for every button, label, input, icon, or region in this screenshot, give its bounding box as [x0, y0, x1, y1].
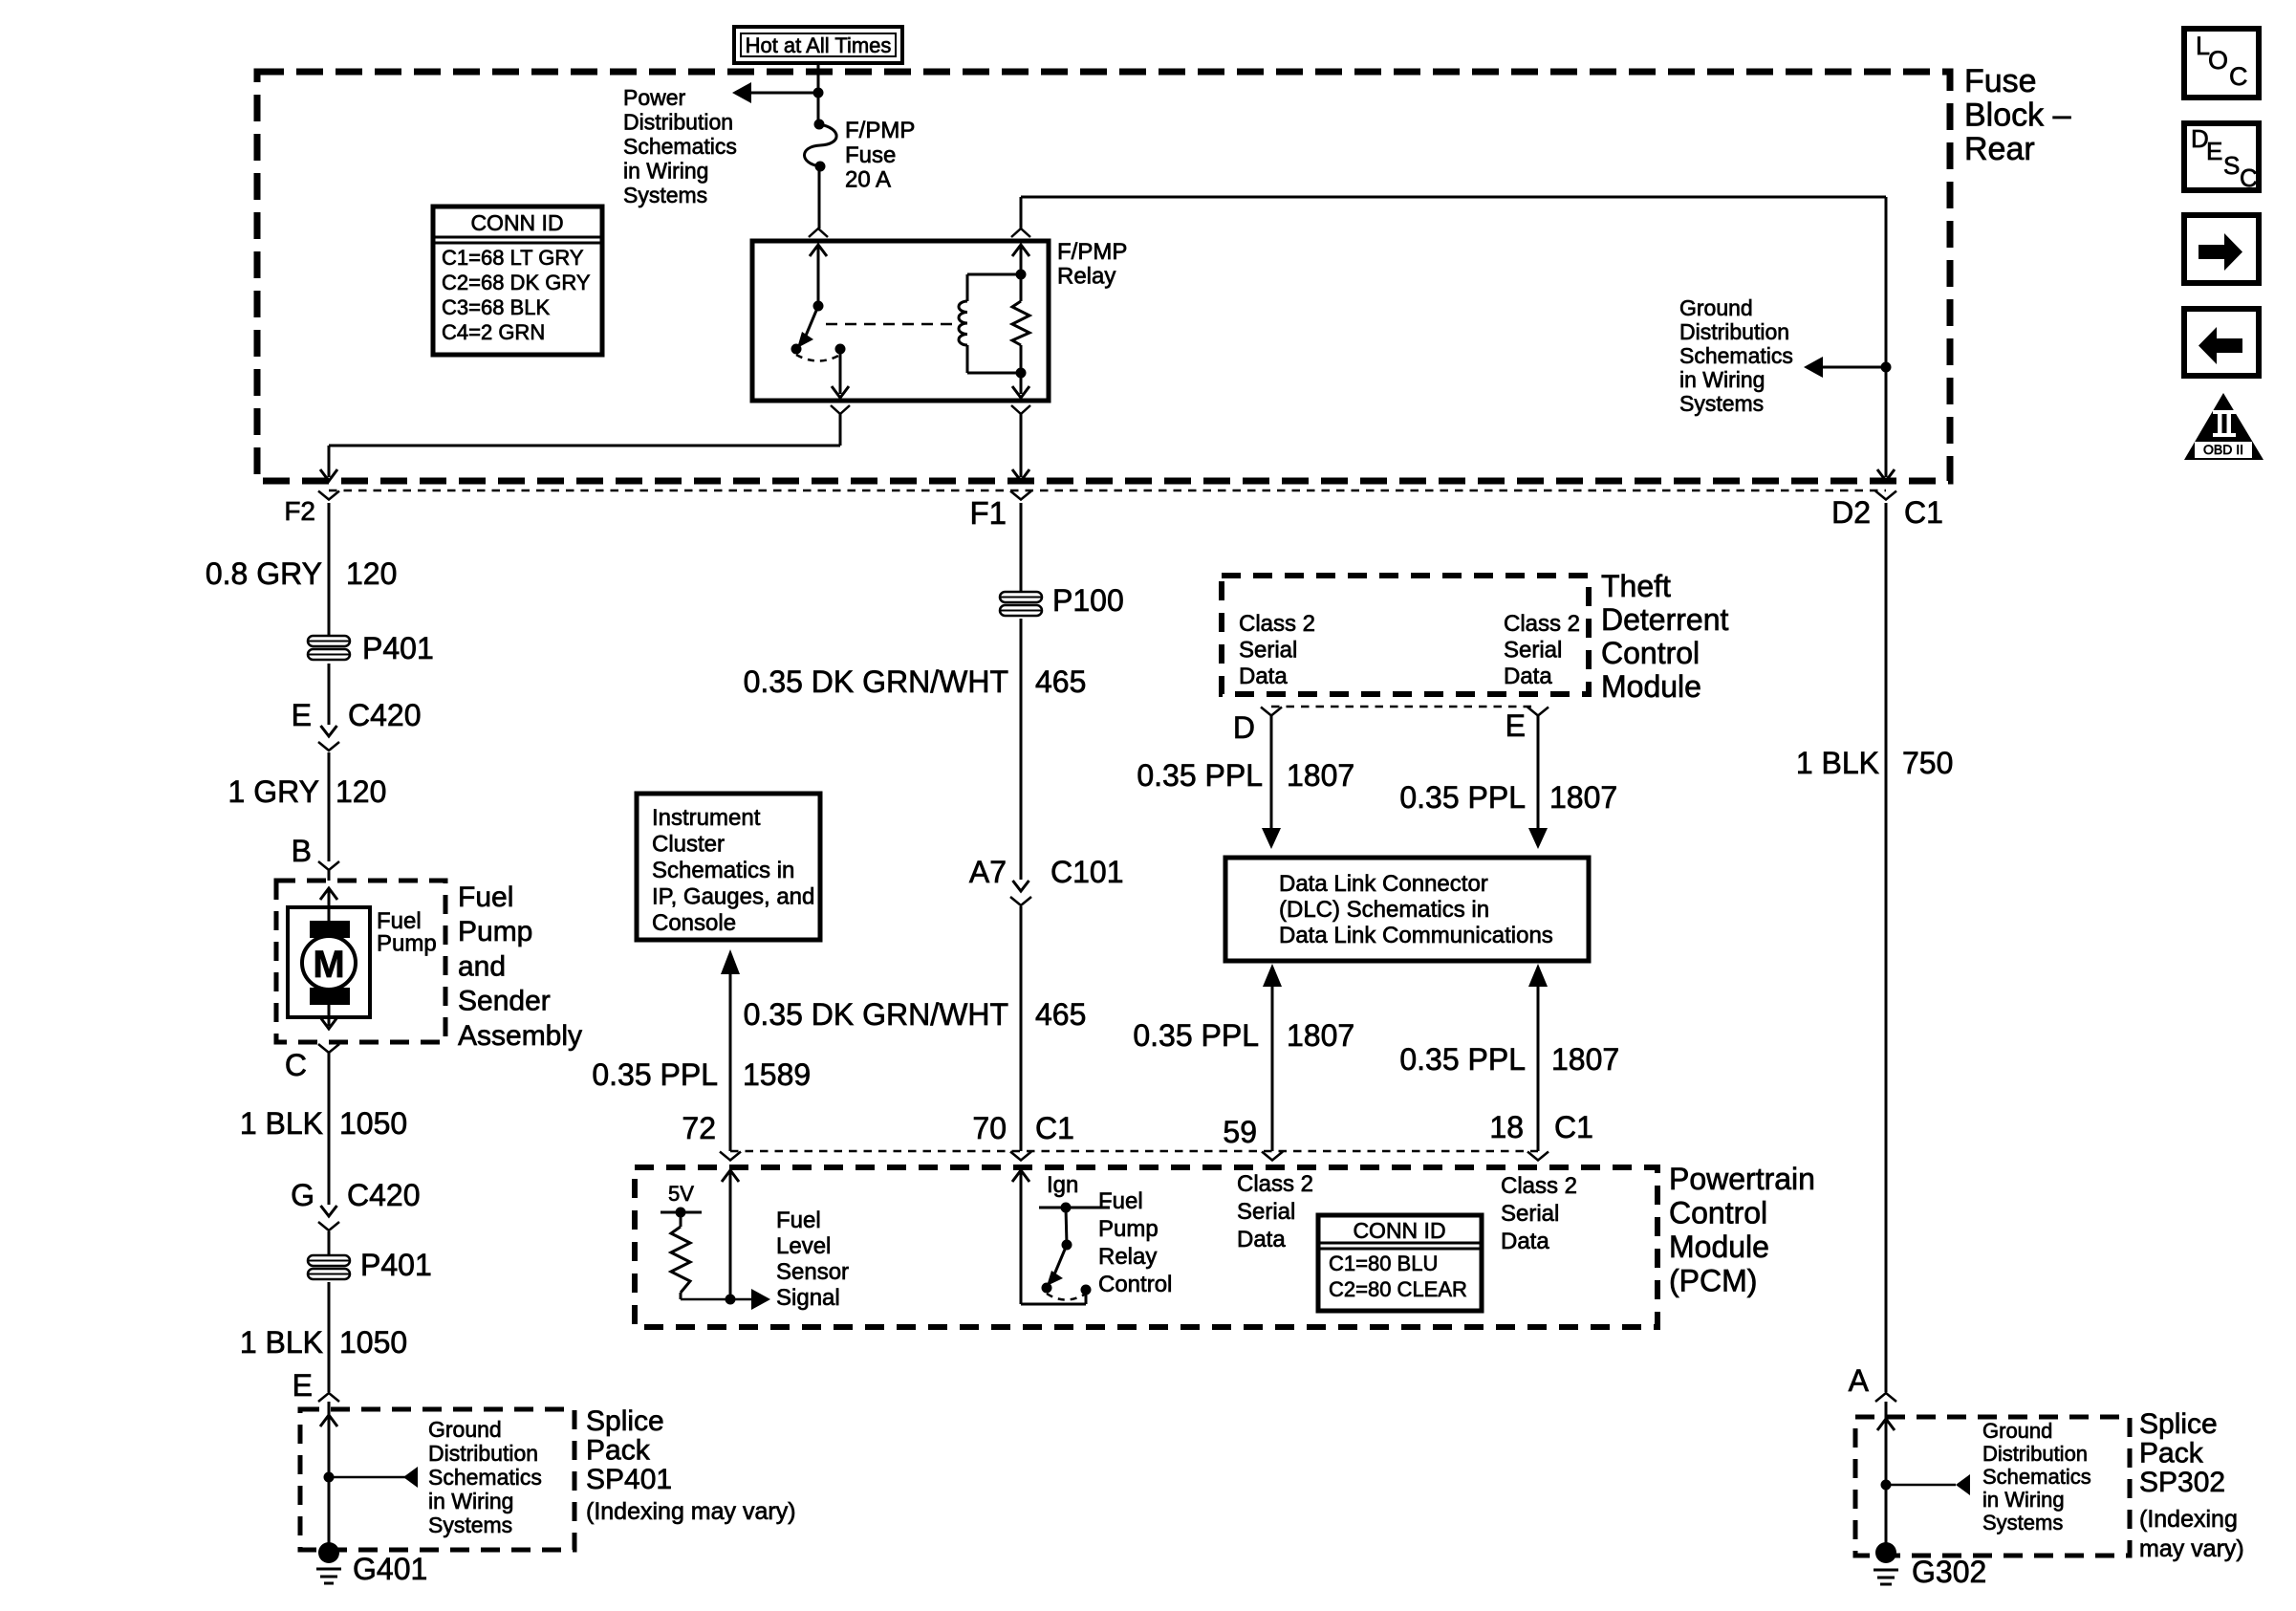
svg-text:Hot at All Times: Hot at All Times	[746, 33, 892, 57]
svg-text:Cluster: Cluster	[652, 832, 725, 858]
svg-text:Relay: Relay	[1098, 1244, 1157, 1270]
svg-text:E: E	[2206, 137, 2222, 165]
svg-text:1807: 1807	[1287, 1018, 1354, 1053]
svg-text:1589: 1589	[743, 1057, 811, 1092]
svg-text:(PCM): (PCM)	[1669, 1264, 1757, 1298]
svg-text:Signal: Signal	[776, 1285, 840, 1311]
svg-text:Sensor: Sensor	[776, 1259, 849, 1285]
svg-text:20 A: 20 A	[845, 167, 891, 193]
svg-text:G: G	[291, 1178, 314, 1212]
svg-text:Deterrent: Deterrent	[1601, 602, 1729, 637]
svg-text:Fuel: Fuel	[1098, 1188, 1143, 1214]
svg-text:0.35 PPL: 0.35 PPL	[1133, 1018, 1259, 1053]
svg-text:Pack: Pack	[2139, 1438, 2204, 1469]
svg-text:0.8 GRY: 0.8 GRY	[206, 556, 322, 591]
svg-text:Data: Data	[1504, 664, 1552, 689]
svg-text:Schematics: Schematics	[623, 134, 737, 159]
svg-text:Rear: Rear	[1964, 131, 2035, 167]
svg-text:0.35 DK GRN/WHT: 0.35 DK GRN/WHT	[744, 997, 1008, 1032]
svg-text:Systems: Systems	[428, 1513, 512, 1537]
svg-text:1807: 1807	[1549, 780, 1617, 815]
svg-text:C1: C1	[1035, 1111, 1074, 1145]
svg-text:in Wiring: in Wiring	[1679, 367, 1765, 392]
svg-text:Systems: Systems	[1679, 391, 1764, 416]
svg-text:in Wiring: in Wiring	[428, 1489, 513, 1513]
svg-text:Block –: Block –	[1964, 98, 2071, 134]
svg-text:0.35 PPL: 0.35 PPL	[1399, 780, 1526, 815]
svg-text:Data: Data	[1501, 1229, 1549, 1254]
svg-text:0.35 PPL: 0.35 PPL	[1137, 758, 1263, 793]
svg-text:Data Link Connector: Data Link Connector	[1279, 871, 1488, 897]
svg-text:C101: C101	[1051, 855, 1124, 889]
svg-text:Control: Control	[1601, 636, 1700, 670]
svg-text:Data Link Communications: Data Link Communications	[1279, 923, 1553, 948]
svg-text:Ign: Ign	[1047, 1172, 1078, 1198]
svg-text:Systems: Systems	[1982, 1511, 2063, 1535]
svg-text:Relay: Relay	[1057, 264, 1116, 290]
svg-text:B: B	[292, 834, 312, 868]
svg-text:G401: G401	[353, 1552, 427, 1586]
svg-text:E: E	[1505, 708, 1526, 743]
svg-text:C420: C420	[347, 1178, 421, 1212]
svg-text:C2=68 DK GRY: C2=68 DK GRY	[442, 271, 591, 294]
svg-text:Fuse: Fuse	[845, 142, 896, 168]
svg-text:SP401: SP401	[586, 1464, 672, 1495]
svg-text:Fuel: Fuel	[776, 1208, 821, 1233]
svg-text:F/PMP: F/PMP	[1057, 239, 1127, 265]
svg-text:F/PMP: F/PMP	[845, 118, 915, 143]
svg-text:1050: 1050	[339, 1325, 407, 1360]
svg-text:Class 2: Class 2	[1504, 611, 1580, 637]
svg-text:E: E	[292, 1368, 313, 1403]
svg-text:1 BLK: 1 BLK	[240, 1325, 323, 1360]
svg-text:OBD II: OBD II	[2203, 442, 2243, 457]
svg-text:Pump: Pump	[1098, 1216, 1159, 1242]
svg-text:Ground: Ground	[1679, 295, 1753, 320]
svg-text:Serial: Serial	[1239, 638, 1297, 664]
svg-text:(Indexing: (Indexing	[2139, 1506, 2238, 1533]
svg-text:Class 2: Class 2	[1239, 611, 1315, 637]
svg-text:Level: Level	[776, 1233, 831, 1259]
svg-text:C2=80 CLEAR: C2=80 CLEAR	[1329, 1277, 1467, 1301]
svg-text:F1: F1	[969, 495, 1007, 531]
svg-text:G302: G302	[1912, 1555, 1986, 1589]
svg-text:Pump: Pump	[377, 931, 437, 957]
svg-text:C: C	[2229, 62, 2248, 91]
svg-text:Console: Console	[652, 910, 736, 936]
svg-text:Powertrain: Powertrain	[1669, 1162, 1815, 1196]
svg-text:C1=80 BLU: C1=80 BLU	[1329, 1252, 1438, 1275]
svg-text:Data: Data	[1237, 1227, 1286, 1252]
svg-text:M: M	[313, 944, 344, 986]
svg-text:C: C	[2240, 163, 2258, 192]
svg-text:465: 465	[1035, 664, 1086, 699]
svg-text:Serial: Serial	[1237, 1199, 1295, 1225]
svg-text:SP302: SP302	[2139, 1467, 2225, 1498]
svg-text:Module: Module	[1601, 669, 1701, 704]
svg-text:0.35 PPL: 0.35 PPL	[592, 1057, 718, 1092]
svg-text:IP, Gauges, and: IP, Gauges, and	[652, 884, 814, 910]
svg-text:C1: C1	[1904, 495, 1943, 530]
svg-text:120: 120	[336, 774, 386, 809]
svg-text:may vary): may vary)	[2139, 1535, 2244, 1562]
svg-text:Data: Data	[1239, 664, 1288, 689]
svg-text:0.35 PPL: 0.35 PPL	[1399, 1042, 1526, 1077]
svg-text:E: E	[292, 698, 312, 732]
svg-text:1 BLK: 1 BLK	[1796, 746, 1879, 780]
svg-text:Sender: Sender	[458, 986, 551, 1017]
svg-text:Fuel: Fuel	[458, 882, 513, 913]
svg-text:Serial: Serial	[1501, 1201, 1559, 1227]
svg-text:Ground: Ground	[428, 1417, 502, 1442]
svg-text:Schematics: Schematics	[428, 1465, 542, 1490]
svg-text:750: 750	[1902, 746, 1953, 780]
svg-text:Schematics: Schematics	[1679, 343, 1793, 368]
svg-text:Pack: Pack	[586, 1435, 651, 1467]
svg-text:Distribution: Distribution	[623, 110, 733, 135]
svg-text:C1=68 LT GRY: C1=68 LT GRY	[442, 246, 584, 270]
svg-text:C420: C420	[348, 698, 422, 732]
svg-text:F2: F2	[284, 496, 315, 526]
svg-text:120: 120	[346, 556, 397, 591]
svg-text:1807: 1807	[1287, 758, 1354, 793]
svg-text:Distribution: Distribution	[1982, 1442, 2088, 1466]
svg-text:Systems: Systems	[623, 183, 707, 207]
svg-text:C3=68 BLK: C3=68 BLK	[442, 295, 550, 319]
svg-text:1050: 1050	[339, 1106, 407, 1141]
svg-text:in Wiring: in Wiring	[1982, 1488, 2065, 1512]
svg-text:Splice: Splice	[586, 1405, 664, 1437]
svg-text:Ground: Ground	[1982, 1419, 2052, 1443]
svg-text:Control: Control	[1098, 1272, 1172, 1297]
svg-text:D: D	[1233, 710, 1255, 745]
svg-text:Control: Control	[1669, 1196, 1767, 1230]
svg-text:in Wiring: in Wiring	[623, 159, 708, 184]
svg-text:P401: P401	[362, 631, 434, 665]
svg-text:Instrument: Instrument	[652, 805, 761, 831]
svg-text:P100: P100	[1052, 583, 1124, 618]
svg-text:1 BLK: 1 BLK	[240, 1106, 323, 1141]
svg-text:18: 18	[1489, 1110, 1524, 1144]
svg-text:Distribution: Distribution	[428, 1441, 538, 1466]
svg-text:Power: Power	[623, 85, 686, 110]
svg-text:C: C	[285, 1048, 307, 1082]
svg-text:59: 59	[1223, 1115, 1257, 1149]
svg-text:Schematics: Schematics	[1982, 1465, 2091, 1489]
svg-text:70: 70	[972, 1111, 1007, 1145]
svg-text:Splice: Splice	[2139, 1408, 2218, 1440]
svg-text:O: O	[2208, 46, 2228, 75]
svg-text:5V: 5V	[668, 1182, 694, 1206]
svg-text:D2: D2	[1831, 495, 1871, 530]
svg-text:Theft: Theft	[1601, 569, 1671, 603]
svg-text:Module: Module	[1669, 1230, 1769, 1264]
svg-text:Schematics in: Schematics in	[652, 858, 794, 883]
svg-text:0.35 DK GRN/WHT: 0.35 DK GRN/WHT	[744, 664, 1008, 699]
svg-text:72: 72	[682, 1111, 716, 1145]
svg-text:1 GRY: 1 GRY	[228, 774, 319, 809]
svg-text:Pump: Pump	[458, 916, 532, 947]
svg-text:Serial: Serial	[1504, 638, 1562, 664]
svg-text:A: A	[1849, 1363, 1870, 1398]
svg-text:(Indexing may vary): (Indexing may vary)	[586, 1498, 796, 1525]
svg-text:A7: A7	[969, 855, 1007, 889]
svg-text:and: and	[458, 950, 506, 982]
svg-text:S: S	[2223, 151, 2240, 180]
svg-text:CONN ID: CONN ID	[470, 210, 563, 235]
svg-text:C4=2 GRN: C4=2 GRN	[442, 320, 545, 344]
svg-text:465: 465	[1035, 997, 1086, 1032]
svg-text:1807: 1807	[1551, 1042, 1619, 1077]
svg-text:P401: P401	[360, 1248, 432, 1282]
svg-text:CONN ID: CONN ID	[1353, 1218, 1445, 1243]
svg-text:Class 2: Class 2	[1237, 1171, 1313, 1197]
svg-text:Fuse: Fuse	[1964, 63, 2037, 99]
svg-text:Distribution: Distribution	[1679, 319, 1789, 344]
svg-text:Assembly: Assembly	[458, 1020, 582, 1052]
svg-text:Class 2: Class 2	[1501, 1173, 1577, 1199]
svg-text:C1: C1	[1554, 1110, 1593, 1144]
svg-text:(DLC) Schematics in: (DLC) Schematics in	[1279, 897, 1489, 923]
